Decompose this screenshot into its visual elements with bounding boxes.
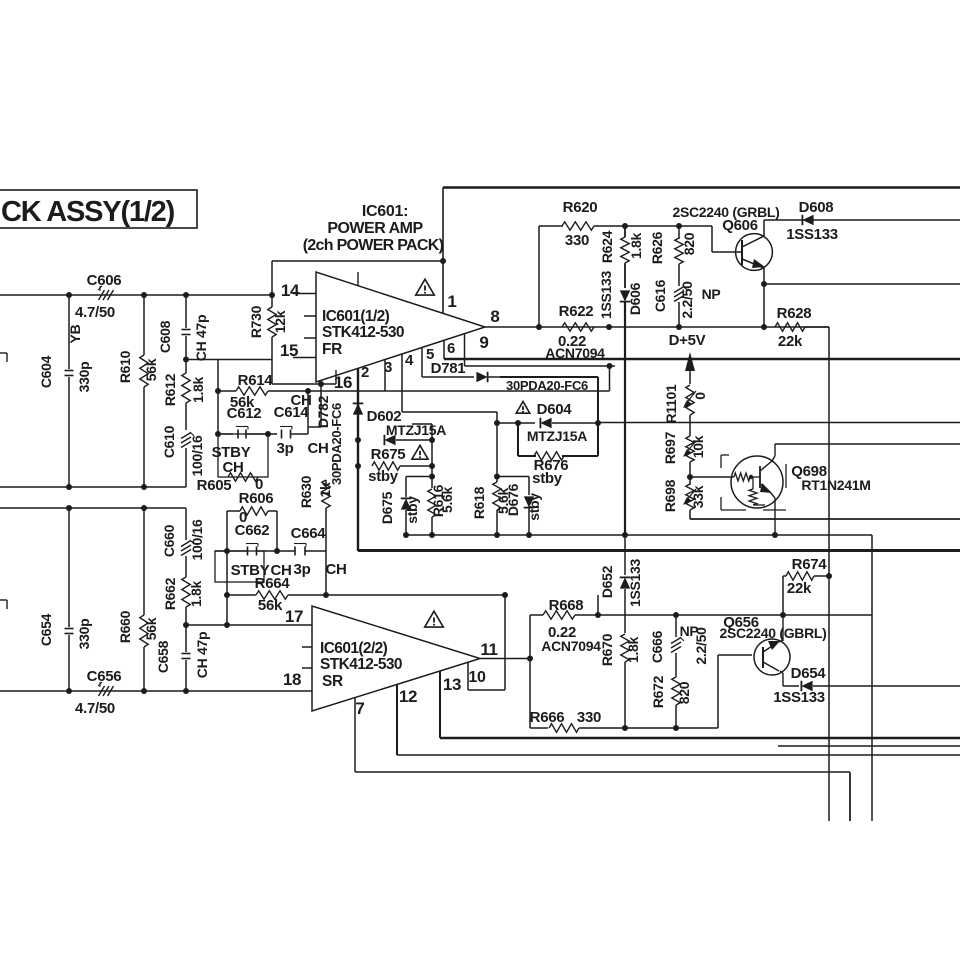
diode D676 [528, 477, 530, 496]
diode D782 [353, 403, 363, 414]
resistor R670 [621, 634, 629, 662]
svg-text:100/16: 100/16 [189, 435, 205, 477]
svg-text:C612: C612 [227, 405, 262, 422]
junction R675 left [355, 463, 361, 469]
resistor R730 [271, 261, 273, 307]
svg-text:D781: D781 [431, 360, 466, 377]
junction R616 bottom [429, 532, 435, 538]
svg-text:R606: R606 [239, 490, 274, 507]
svg-text:22k: 22k [787, 580, 812, 597]
svg-text:IC601(1/2): IC601(1/2) [322, 308, 390, 325]
riser pin9 to R614 row [609, 366, 611, 391]
svg-text:CH 47p: CH 47p [193, 315, 209, 361]
wire return rail ch1 [0, 486, 186, 488]
package bracket Q698 [721, 454, 729, 456]
svg-text:100/16: 100/16 [189, 519, 205, 561]
left edge connector mark lower [0, 599, 7, 601]
svg-text:30PDA20-FC6: 30PDA20-FC6 [506, 378, 588, 393]
junction R660 bottom [141, 688, 147, 694]
svg-text:17: 17 [285, 607, 303, 626]
junction R697/R698/Q698 base [687, 474, 693, 480]
svg-text:330: 330 [565, 232, 589, 249]
svg-text:POWER AMP: POWER AMP [327, 220, 423, 237]
junction riser/pin17 wire ch2 [224, 622, 230, 628]
svg-text:3p: 3p [294, 561, 311, 578]
wire top supply rail [443, 186, 960, 189]
diode D604 MTZJ15A [497, 422, 535, 424]
svg-text:4: 4 [405, 352, 414, 369]
pin 3 wire [384, 360, 386, 392]
junction riser/R614 wire [215, 388, 221, 394]
junction D606 line bottom [622, 532, 628, 538]
junction riser/caps row ch2 [224, 548, 230, 554]
svg-text:SR: SR [322, 673, 343, 690]
svg-text:C604: C604 [38, 355, 54, 388]
junction R624 top [622, 223, 628, 229]
pin 15 stub [293, 357, 316, 359]
junction D676 bottom [526, 532, 532, 538]
junction rail/R730 [269, 292, 275, 298]
svg-text:D+5V: D+5V [669, 332, 706, 349]
resistor R612 [185, 359, 187, 373]
riser R664 row to R668 row [597, 595, 599, 615]
junction riser/R664 wire ch2 [224, 592, 230, 598]
op-amp U2 IC601(2/2) triangle [312, 606, 480, 711]
svg-text:1.8k: 1.8k [190, 376, 206, 403]
svg-text:R622: R622 [559, 303, 594, 320]
wire U1 output row [485, 326, 829, 328]
svg-text:9: 9 [479, 333, 488, 352]
STBY CH box ch2 [215, 551, 264, 582]
warning symbol in D604 box [516, 402, 530, 414]
pin 2 wire thick [357, 368, 359, 551]
svg-text:R610: R610 [117, 350, 133, 383]
resistor R675 [372, 462, 400, 470]
resistor R666 [530, 727, 548, 729]
warning symbol near U2 [425, 611, 444, 627]
resistor R630 [325, 480, 327, 485]
resistor R626 [678, 226, 680, 239]
capacitor C616 electrolytic NP [678, 264, 680, 286]
svg-text:13: 13 [443, 675, 461, 694]
svg-text:330p: 330p [76, 362, 92, 393]
svg-text:R697: R697 [662, 431, 678, 464]
pin 5 stub [421, 348, 423, 378]
svg-text:3p: 3p [277, 440, 294, 457]
junction R662/C658/pin17 [183, 622, 189, 628]
resistor R698 [686, 484, 694, 510]
capacitor C608 [185, 295, 187, 328]
svg-text:1SS133: 1SS133 [598, 270, 614, 319]
wire mid right row [778, 745, 960, 747]
junction C608 top [183, 292, 189, 298]
junction R610 bottom [141, 484, 147, 490]
svg-text:6: 6 [447, 340, 455, 357]
svg-text:C610: C610 [161, 425, 177, 458]
pin 15 wire [186, 359, 272, 361]
svg-text:R624: R624 [599, 230, 615, 263]
svg-text:C664: C664 [291, 525, 327, 542]
diode D781 [476, 372, 487, 382]
transistor Q656 2SC2240 [754, 639, 790, 675]
resistor R616 [431, 440, 433, 488]
junction R610 top [141, 292, 147, 298]
svg-text:CK ASSY(1/2): CK ASSY(1/2) [1, 196, 175, 228]
junction C662/R606 [274, 548, 280, 554]
resistor R664 [227, 594, 256, 596]
svg-text:330: 330 [577, 709, 601, 726]
svg-text:R666: R666 [530, 709, 565, 726]
resistor R610 [143, 295, 145, 355]
svg-text:R730: R730 [248, 305, 264, 338]
svg-text:IC601(2/2): IC601(2/2) [320, 640, 388, 657]
junction C614 top to R614 wire [305, 388, 311, 394]
svg-text:IC601:: IC601: [362, 203, 408, 220]
riser STBY box ch2 [226, 511, 228, 625]
resistor R660 [143, 508, 145, 615]
svg-text:1SS133: 1SS133 [627, 558, 643, 607]
junction output U2 / feedback [527, 656, 533, 662]
svg-text:CH: CH [290, 392, 311, 409]
junction D604 wire box left [515, 420, 521, 426]
pin 9 wire [464, 334, 466, 367]
capacitor C658 [185, 625, 187, 652]
svg-text:R674: R674 [792, 556, 828, 573]
svg-text:820: 820 [676, 681, 692, 704]
svg-text:NP: NP [702, 286, 721, 302]
svg-text:C616: C616 [652, 279, 668, 312]
capacitor C612 [218, 433, 233, 435]
svg-text:4.7/50: 4.7/50 [75, 700, 115, 717]
pin 13 wire [439, 671, 441, 738]
title box CK ASSY(1/2) [0, 190, 197, 228]
svg-text:56k: 56k [143, 358, 159, 381]
resistor R605 [228, 473, 258, 481]
svg-text:D606: D606 [627, 282, 643, 315]
wire stby row [406, 534, 872, 536]
wire D675 top link [406, 476, 432, 478]
svg-text:11: 11 [480, 640, 497, 659]
svg-text:R614: R614 [238, 372, 274, 389]
svg-text:R630: R630 [298, 475, 314, 508]
svg-text:CH: CH [307, 440, 328, 457]
resistor R628 [775, 323, 805, 331]
svg-text:D676: D676 [505, 483, 521, 516]
svg-text:D652: D652 [599, 565, 615, 598]
junction R668/R664 riser [595, 612, 601, 618]
warning symbol near R675 [412, 445, 428, 459]
resistor R662 [182, 577, 190, 607]
svg-text:C654: C654 [38, 613, 54, 646]
svg-text:10: 10 [468, 669, 486, 686]
wire lower right drop [849, 773, 851, 821]
svg-text:2SC2240 (GRBL): 2SC2240 (GRBL) [672, 204, 779, 220]
junction R664/R630 line [323, 592, 329, 598]
svg-text:R620: R620 [563, 199, 598, 216]
svg-text:2.2/50: 2.2/50 [693, 627, 709, 665]
diode D654 1SS133 [783, 685, 799, 687]
svg-text:12: 12 [399, 687, 417, 706]
svg-text:R628: R628 [777, 305, 812, 322]
junction C666 top [673, 612, 679, 618]
svg-text:1.8k: 1.8k [628, 232, 644, 259]
junction C612/C614 [265, 431, 271, 437]
svg-text:(2ch POWER PACK): (2ch POWER PACK) [303, 237, 444, 254]
svg-text:R668: R668 [549, 597, 584, 614]
junction D602 wire [355, 437, 361, 443]
junction C654 top [66, 505, 72, 511]
svg-text:30PDA20-FC6: 30PDA20-FC6 [329, 403, 344, 485]
junction D675 link [429, 474, 435, 480]
svg-text:C662: C662 [235, 522, 270, 539]
junction C608/R612/pin15 [183, 357, 189, 363]
svg-text:14: 14 [281, 281, 300, 300]
wire thick bus lower [358, 549, 960, 552]
svg-text:R1101: R1101 [663, 384, 679, 423]
resistor R668 [543, 611, 575, 619]
svg-text:stby: stby [404, 496, 420, 524]
output wire U2 pin 11 [480, 658, 530, 660]
junction Q606 emitter / D+5V row [761, 281, 767, 287]
svg-text:CH: CH [325, 561, 346, 578]
resistor R606 [227, 510, 240, 512]
wire input rail ch1 [0, 294, 272, 296]
module box 30PDA20-FC6 [500, 376, 598, 378]
junction pin14 wire / pin1 wire [440, 258, 446, 264]
wire stby row drop right [871, 535, 873, 821]
svg-text:8: 8 [490, 307, 499, 326]
wire bus pin6 row [444, 358, 960, 361]
resistor R622 [562, 323, 594, 331]
svg-text:C656: C656 [87, 668, 122, 685]
svg-text:33k: 33k [690, 485, 706, 508]
transistor Q606 2SC2240 [736, 234, 773, 271]
riser pin15 node to STBY box [217, 360, 219, 435]
capacitor C660 electrolytic [185, 508, 187, 540]
wire input rail ch2 [0, 507, 186, 509]
svg-text:MTZJ15A: MTZJ15A [527, 428, 587, 444]
wire D602 upper link [412, 423, 432, 425]
pin 7 wire [354, 698, 356, 772]
svg-text:ACN7094: ACN7094 [541, 638, 601, 654]
svg-text:1.8k: 1.8k [188, 580, 204, 607]
svg-text:2.2/50: 2.2/50 [679, 281, 695, 319]
junction R674/right vertical [826, 573, 832, 579]
svg-text:C658: C658 [155, 640, 171, 673]
pin 14 stub [293, 293, 316, 295]
capacitor C614 [281, 430, 283, 439]
svg-text:FR: FR [322, 341, 342, 358]
junction Q698 emitter / stby row [772, 532, 778, 538]
svg-text:D654: D654 [791, 665, 827, 682]
svg-text:12k: 12k [272, 310, 288, 333]
wire R628 to lower right [805, 326, 829, 328]
wire R668 row [530, 614, 543, 616]
wire pin 17 net [186, 624, 312, 626]
svg-text:R612: R612 [162, 373, 178, 406]
svg-text:R672: R672 [650, 675, 666, 708]
svg-text:0: 0 [692, 392, 708, 400]
capacitor C666 electrolytic NP [675, 615, 677, 637]
pin stub a U2 [302, 646, 312, 648]
resistor R1101 [686, 385, 694, 415]
svg-text:R664: R664 [255, 575, 291, 592]
pin 10 box [467, 662, 469, 690]
svg-text:56k: 56k [258, 597, 283, 614]
svg-text:5.6k: 5.6k [439, 486, 455, 513]
svg-text:2SC2240 (GBRL): 2SC2240 (GBRL) [719, 625, 826, 641]
svg-text:C666: C666 [649, 630, 665, 663]
wire pin16 branch to C614 [320, 384, 322, 427]
svg-text:stby: stby [532, 470, 563, 487]
junction R664 wire/pin10 riser [502, 592, 508, 598]
svg-text:56k: 56k [143, 617, 159, 640]
junction C604 top [66, 292, 72, 298]
wire D676 top link [497, 476, 529, 478]
junction C616 bottom [676, 324, 682, 330]
svg-text:18: 18 [283, 670, 301, 689]
svg-text:4.7/50: 4.7/50 [75, 304, 115, 321]
svg-text:D675: D675 [379, 491, 395, 524]
svg-text:R698: R698 [662, 479, 678, 512]
wire D604 net row right [598, 422, 960, 424]
pin 16 stub [335, 370, 337, 384]
diode D606 1SS133 [624, 263, 626, 288]
junction R670 bottom [622, 725, 628, 731]
pin 1 stub wire [442, 188, 444, 314]
capacitor C664 [294, 547, 296, 556]
svg-text:2: 2 [361, 364, 369, 381]
junction R618 bottom [494, 532, 500, 538]
pin stub a U1 [304, 315, 316, 317]
svg-text:C660: C660 [161, 524, 177, 557]
resistor R674 [782, 576, 784, 615]
svg-text:C606: C606 [87, 272, 122, 289]
pin 4 wire [401, 354, 403, 412]
svg-text:1: 1 [447, 292, 456, 311]
junction Q606 emitter row [761, 324, 767, 330]
svg-text:stby: stby [526, 493, 542, 521]
pin stub b U2 [302, 667, 312, 669]
pin 6 stub [443, 340, 445, 359]
svg-text:R660: R660 [117, 610, 133, 643]
svg-text:820: 820 [681, 232, 697, 255]
junction R660 top [141, 505, 147, 511]
svg-text:1SS133: 1SS133 [786, 226, 838, 243]
svg-text:STK412-530: STK412-530 [320, 656, 402, 673]
svg-text:STK412-530: STK412-530 [322, 324, 404, 341]
svg-text:CH 47p: CH 47p [194, 632, 210, 678]
resistor R672 [672, 677, 680, 705]
junction C658 bottom [183, 688, 189, 694]
svg-text:R662: R662 [162, 577, 178, 610]
svg-text:7: 7 [355, 699, 364, 718]
svg-text:1.8k: 1.8k [625, 636, 641, 663]
junction C604 bottom [66, 484, 72, 490]
diode D608 1SS133 [764, 219, 960, 221]
resistor R676 [534, 452, 564, 460]
capacitor C654 [68, 508, 70, 627]
svg-text:22k: 22k [778, 333, 803, 350]
svg-text:C608: C608 [157, 320, 173, 353]
wire R698 bottom row [689, 510, 691, 519]
resistor R697 [686, 436, 694, 462]
junction D604 wire left [494, 420, 500, 426]
svg-text:R670: R670 [599, 633, 615, 666]
diode D602 [384, 435, 395, 445]
op-amp U1 IC601(1/2) triangle [316, 272, 485, 382]
wire U2 feedback vertical [529, 615, 531, 728]
svg-text:stby: stby [368, 468, 399, 485]
pin stub b U1 [304, 337, 316, 339]
capacitor C606 electrolytic [99, 290, 105, 300]
junction R674/Q656 collector [780, 612, 786, 618]
resistor R620 [538, 226, 540, 327]
resistor R618 [496, 423, 498, 482]
junction D675 bottom [403, 532, 409, 538]
capacitor C610 electrolytic [181, 433, 191, 439]
pin 16 net wire [272, 383, 336, 385]
junction box top-left [215, 431, 221, 437]
op-amp U1 top pin tick [357, 272, 359, 286]
capacitor C604 [68, 295, 70, 369]
transistor Q698 RT1N241M [731, 456, 783, 508]
junction output/R620 branch [536, 324, 542, 330]
svg-text:10k: 10k [690, 435, 706, 458]
svg-text:330p: 330p [76, 619, 92, 650]
svg-text:D608: D608 [799, 199, 834, 216]
svg-text:D604: D604 [537, 401, 573, 418]
resistor R614 [236, 387, 268, 395]
capacitor C656 electrolytic [99, 686, 105, 696]
junction R672 bottom [673, 725, 679, 731]
svg-text:1SS133: 1SS133 [773, 689, 825, 706]
warning symbol near U1 [416, 279, 435, 295]
junction pin9 wire / return [607, 363, 613, 369]
resistor R624 [624, 226, 626, 237]
left edge connector mark upper [0, 352, 7, 354]
junction pin16 wire [318, 381, 324, 387]
wire Q656 base link [717, 655, 719, 728]
junction R626 top [676, 223, 682, 229]
junction R618 top link [494, 474, 500, 480]
junction C654 bottom [66, 688, 72, 694]
diode D652 1SS133 [624, 535, 626, 575]
junction R622/D606 line [606, 324, 612, 330]
diode D675 [405, 477, 407, 498]
wire Q606 emitter row [764, 283, 960, 285]
svg-text:R675: R675 [371, 446, 406, 463]
junction D602/R616 line [429, 437, 435, 443]
junction D604 wire box right [595, 420, 601, 426]
wire bottom rail ch2 pin18 [0, 690, 312, 692]
junction R675 right [429, 463, 435, 469]
pin 14 net top wire [272, 260, 443, 262]
svg-text:RT1N241M: RT1N241M [801, 477, 870, 493]
STBY CH box ch1 [218, 434, 268, 477]
svg-text:R626: R626 [649, 231, 665, 264]
pin 12 wire [396, 684, 398, 755]
svg-text:R605: R605 [197, 477, 232, 494]
svg-text:R618: R618 [471, 486, 487, 519]
capacitor C662 [215, 550, 248, 552]
